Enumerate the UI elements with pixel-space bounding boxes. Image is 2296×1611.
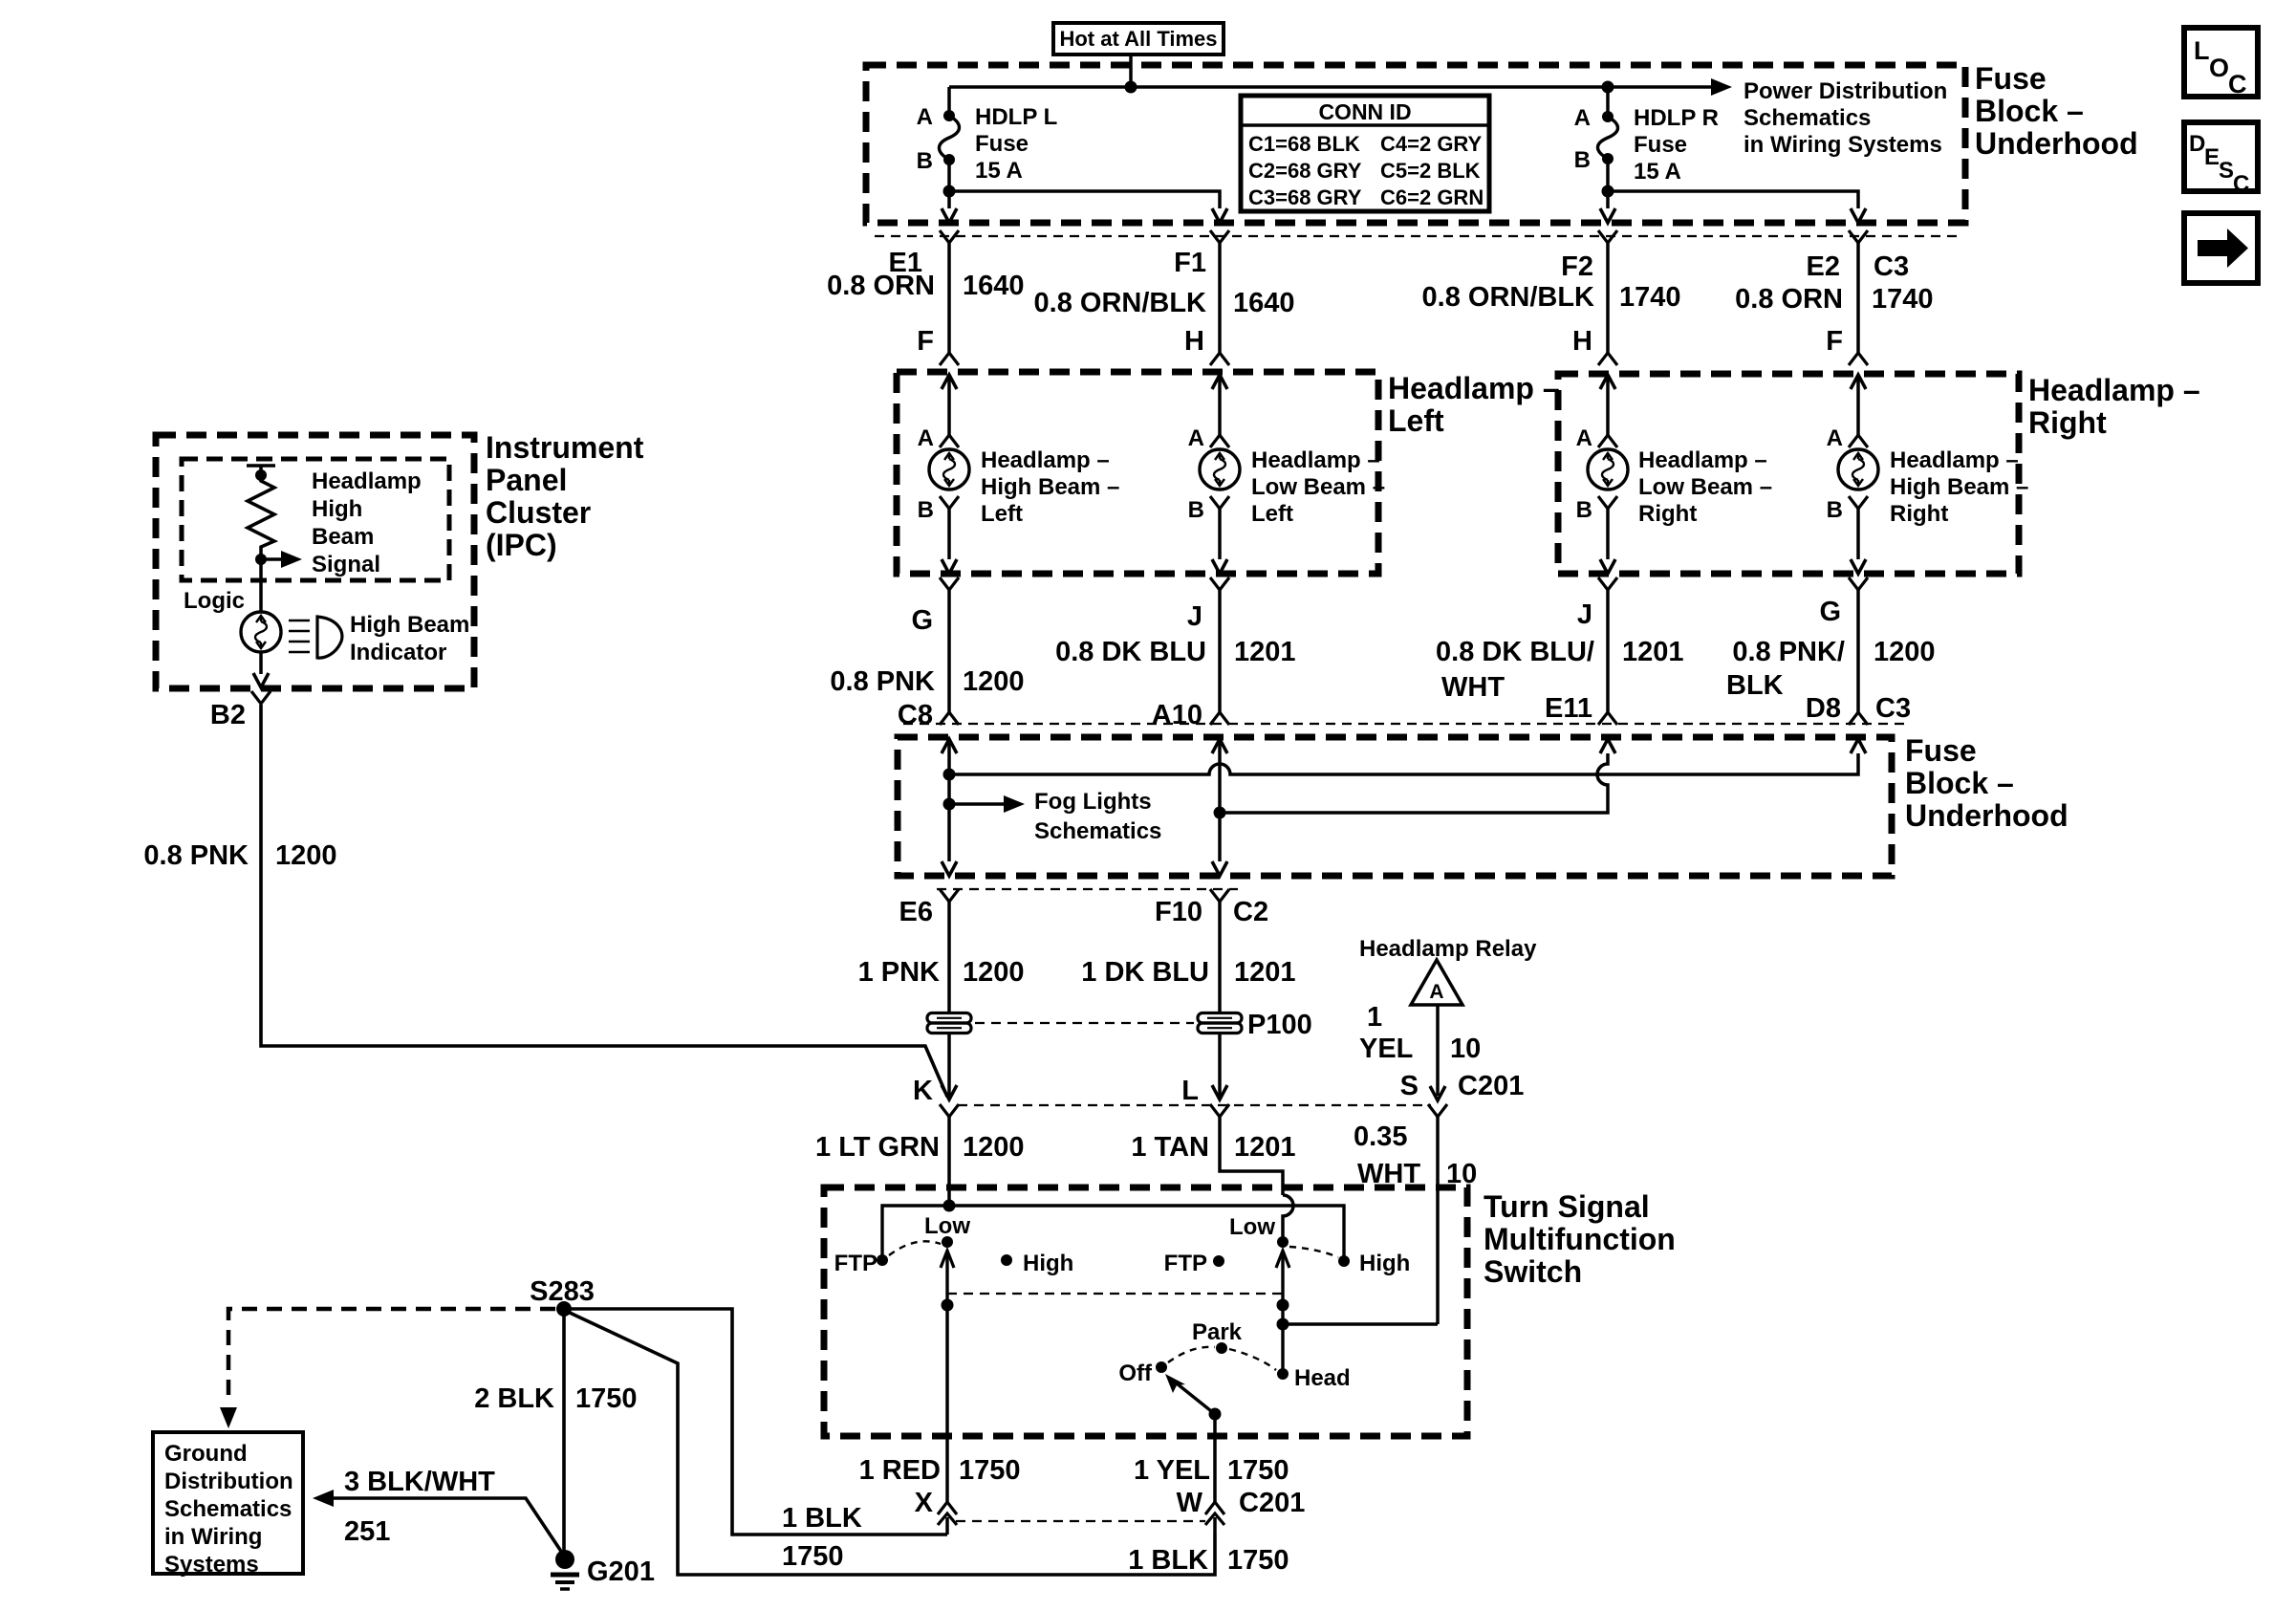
wire 1 BLK 1750 S283 to W xyxy=(570,1313,1215,1575)
svg-text:in Wiring Systems: in Wiring Systems xyxy=(1744,132,1942,158)
switch arm left (wiper to Low) xyxy=(941,1251,954,1304)
svg-text:0.8 PNK: 0.8 PNK xyxy=(830,666,935,697)
svg-text:FTP: FTP xyxy=(1164,1251,1207,1276)
contact Head xyxy=(1277,1368,1289,1380)
connector row C100 fine dashed line xyxy=(875,235,1960,237)
wire crossover link PNK to D8 with hop xyxy=(949,753,1858,774)
svg-text:1200: 1200 xyxy=(963,1132,1025,1163)
junction bus and LT GRN xyxy=(943,1200,956,1212)
svg-text:Ground: Ground xyxy=(164,1441,248,1467)
svg-text:X: X xyxy=(915,1488,934,1518)
connector row C201 bottom fine dashed line xyxy=(956,1520,1205,1522)
wire link DK BLU to E11 with hop xyxy=(1220,753,1608,813)
svg-text:HDLP R: HDLP R xyxy=(1634,105,1719,131)
connector half S xyxy=(1428,1104,1447,1117)
svg-text:D: D xyxy=(2189,131,2205,157)
arrowhead into headlamp high beam left xyxy=(942,375,957,389)
wire branch to E2 xyxy=(1608,191,1858,208)
svg-text:Off: Off xyxy=(1118,1361,1153,1386)
arrow to Fog Lights Schematics xyxy=(1004,795,1025,813)
wire to pin A of headlamp high beam left xyxy=(947,375,951,435)
svg-text:Headlamp –: Headlamp – xyxy=(981,447,1110,473)
wire 0.8 PNK 1200 from IPC B2 to K xyxy=(261,705,947,1097)
connector half L xyxy=(1210,1104,1229,1117)
svg-text:A: A xyxy=(917,104,933,130)
svg-text:C3: C3 xyxy=(1874,251,1909,282)
svg-text:Left: Left xyxy=(981,501,1023,527)
connector pin A headlamp low beam right xyxy=(1598,435,1617,447)
svg-text:0.8 ORN/BLK: 0.8 ORN/BLK xyxy=(1422,282,1595,313)
arrowhead into ground distribution box xyxy=(220,1407,237,1428)
wire 1 RED 1750 from arm to X xyxy=(945,1305,949,1502)
wire to pin A of headlamp low beam right xyxy=(1606,375,1610,435)
arrowhead at E1 exit xyxy=(942,208,957,223)
high beam indicator icon xyxy=(289,617,342,658)
wire 3 BLK/WHT 251 xyxy=(334,1498,562,1553)
wire 1 DK BLU 1201 segment xyxy=(1218,902,1222,1012)
wire stem below X xyxy=(945,1517,949,1535)
wire stub to fog lights note xyxy=(949,802,1004,806)
svg-text:1750: 1750 xyxy=(782,1541,844,1572)
svg-text:15 A: 15 A xyxy=(975,158,1023,184)
svg-text:1750: 1750 xyxy=(1227,1545,1289,1576)
power bus wire y91 xyxy=(949,85,1711,89)
wire PNK below P100 xyxy=(947,1034,951,1096)
wire from Hot at All Times to power bus xyxy=(1129,54,1133,87)
svg-text:F: F xyxy=(1826,326,1843,357)
connector pin A headlamp high beam right xyxy=(1849,435,1868,447)
svg-text:Right: Right xyxy=(1638,501,1697,527)
svg-text:1201: 1201 xyxy=(1234,1132,1296,1163)
svg-text:High: High xyxy=(312,496,362,522)
junction fuse block 2 c xyxy=(1214,807,1226,819)
arrowhead into headlamp low beam right xyxy=(1600,375,1615,389)
junction arm right a xyxy=(1277,1299,1289,1312)
ground G201 symbol xyxy=(551,1550,579,1589)
svg-text:High Beam –: High Beam – xyxy=(981,474,1119,500)
connector pin B headlamp high beam left xyxy=(940,496,959,509)
connector below box headlamp low beam right xyxy=(1598,577,1617,590)
svg-text:High Beam: High Beam xyxy=(350,612,469,638)
svg-text:Fog Lights: Fog Lights xyxy=(1034,789,1152,815)
wire WHT link to dimmer arm xyxy=(1283,1322,1438,1326)
svg-text:A: A xyxy=(1827,425,1843,451)
connector half pin H headlamp xyxy=(1210,353,1229,365)
svg-text:Logic: Logic xyxy=(184,588,245,614)
bulb headlamp low beam left xyxy=(1200,449,1240,490)
svg-text:Headlamp –: Headlamp – xyxy=(1890,447,2019,473)
svg-text:O: O xyxy=(2209,54,2229,82)
node top of high beam signal resistor xyxy=(255,469,267,481)
label HDLP L Fuse 15 A xyxy=(975,104,1057,184)
connector row fine dashed line E6/F10 xyxy=(937,888,1238,890)
inline connector at PNK wire xyxy=(927,1013,971,1034)
svg-text:Turn Signal: Turn Signal xyxy=(1484,1189,1650,1224)
svg-text:F: F xyxy=(917,326,934,357)
svg-text:B: B xyxy=(1827,497,1843,523)
CONN ID table xyxy=(1241,96,1489,211)
svg-text:1 TAN: 1 TAN xyxy=(1131,1132,1209,1163)
arrowhead exit headlamp low beam left xyxy=(1212,559,1227,574)
svg-text:1640: 1640 xyxy=(1233,288,1295,318)
svg-text:G: G xyxy=(1819,597,1841,627)
svg-text:C4=2 GRY: C4=2 GRY xyxy=(1380,132,1483,156)
junction fuse block 2 b xyxy=(943,798,956,811)
wire to E1 exit xyxy=(947,191,951,208)
title: Headlamp - Right xyxy=(2028,373,2200,440)
connector half pin F2 headlamp xyxy=(1849,353,1868,365)
svg-text:High: High xyxy=(1023,1251,1073,1276)
svg-text:1200: 1200 xyxy=(963,957,1025,988)
svg-text:H: H xyxy=(1572,326,1592,357)
svg-text:Indicator: Indicator xyxy=(350,640,446,665)
connector below box headlamp high beam right xyxy=(1849,577,1868,590)
wire indicator to B2 xyxy=(259,652,263,674)
connector row C201 fine dashed line xyxy=(958,1104,1431,1106)
svg-text:1200: 1200 xyxy=(963,666,1025,697)
dashed link between inline connectors xyxy=(975,1022,1194,1024)
title: Fuse Block - Underhood (lower) xyxy=(1905,733,2069,833)
wire headlamp return segment x=1276 xyxy=(1218,590,1222,712)
IPC inner dashed box xyxy=(182,459,449,580)
label headlamp high beam left text xyxy=(981,447,1119,527)
junction fuse block 2 a xyxy=(943,769,956,781)
svg-text:A: A xyxy=(1576,425,1592,451)
svg-text:C3=68 GRY: C3=68 GRY xyxy=(1248,185,1362,209)
svg-text:C201: C201 xyxy=(1239,1488,1305,1518)
arrow navigation box xyxy=(2184,213,2258,283)
arrowhead at F2 exit xyxy=(1600,208,1615,223)
connector pin A headlamp high beam left xyxy=(940,435,959,447)
svg-text:Beam: Beam xyxy=(312,524,374,550)
svg-text:G201: G201 xyxy=(587,1557,655,1587)
contact Off xyxy=(1156,1361,1167,1373)
connector below box headlamp high beam left xyxy=(940,577,959,590)
svg-text:1740: 1740 xyxy=(1872,284,1934,315)
title: Fuse Block - Underhood (top) xyxy=(1975,61,2138,161)
svg-text:E: E xyxy=(2204,144,2220,170)
svg-text:C6=2 GRN: C6=2 GRN xyxy=(1380,185,1484,209)
turn signal multifunction switch dashed box xyxy=(824,1187,1467,1436)
svg-text:B: B xyxy=(1576,497,1592,523)
headlamp left dashed box xyxy=(897,372,1378,574)
contact Park xyxy=(1216,1342,1227,1354)
wire stem below W xyxy=(1213,1517,1217,1535)
resistor high beam signal xyxy=(247,466,275,559)
arrowhead at B2 exit xyxy=(253,673,269,687)
arrowhead at E2 exit xyxy=(1851,208,1866,223)
connector half above fuse block x=1944 xyxy=(1849,712,1868,725)
wire 1 YEL 1750 from arm to W xyxy=(1213,1414,1217,1502)
arrowhead at K xyxy=(942,1085,957,1099)
connector half above fuse block x=1276 xyxy=(1210,712,1229,725)
svg-text:1201: 1201 xyxy=(1622,637,1684,667)
arrowhead into fuse block 2 x=1276 xyxy=(1212,739,1227,753)
arrow to ground distribution left xyxy=(313,1490,334,1507)
junction below resistor xyxy=(255,554,267,565)
arrowhead exit headlamp high beam right xyxy=(1851,559,1866,574)
svg-text:S: S xyxy=(1400,1071,1419,1101)
svg-text:A: A xyxy=(1188,425,1204,451)
contact High right xyxy=(1338,1255,1350,1267)
label headlamp low beam right text xyxy=(1638,447,1772,527)
wire to pin A of headlamp low beam left xyxy=(1218,375,1222,435)
wire power bus to HDLP L fuse terminal A xyxy=(947,87,951,116)
title: Turn Signal Multifunction Switch xyxy=(1484,1189,1676,1289)
svg-text:Panel: Panel xyxy=(486,463,567,497)
svg-text:Right: Right xyxy=(1890,501,1948,527)
svg-text:Headlamp –: Headlamp – xyxy=(1388,371,1560,405)
wire 1 LT GRN 1200 segment xyxy=(947,1117,951,1206)
svg-text:2 BLK: 2 BLK xyxy=(474,1383,554,1414)
svg-text:1 DK BLU: 1 DK BLU xyxy=(1081,957,1209,988)
bulb headlamp low beam right xyxy=(1588,449,1628,490)
fuse HDLP R 15A xyxy=(1598,111,1618,164)
power label box: Hot at All Times xyxy=(1053,23,1224,54)
wire inside fuse block 2 center xyxy=(1218,739,1222,861)
svg-text:1201: 1201 xyxy=(1234,637,1296,667)
connector pin A headlamp low beam left xyxy=(1210,435,1229,447)
svg-text:Block –: Block – xyxy=(1975,94,2084,128)
connector below box headlamp low beam left xyxy=(1210,577,1229,590)
svg-text:Schematics: Schematics xyxy=(1744,105,1871,131)
connector pin B headlamp low beam right xyxy=(1598,496,1617,509)
connector half F2 xyxy=(1598,230,1617,243)
contact High left xyxy=(1001,1254,1012,1266)
svg-text:1750: 1750 xyxy=(959,1455,1021,1486)
svg-text:Headlamp –: Headlamp – xyxy=(1251,447,1380,473)
svg-text:YEL: YEL xyxy=(1359,1034,1413,1064)
svg-text:C8: C8 xyxy=(898,700,933,730)
svg-text:E11: E11 xyxy=(1545,693,1592,724)
svg-text:B2: B2 xyxy=(210,700,246,730)
headlamp relay triangle symbol A xyxy=(1411,960,1462,1005)
junction arm left xyxy=(942,1299,954,1312)
svg-text:K: K xyxy=(913,1076,933,1106)
arrowhead fuse block 2 bottom center xyxy=(1212,861,1227,876)
svg-text:C: C xyxy=(2228,70,2247,98)
svg-text:1 YEL: 1 YEL xyxy=(1134,1455,1210,1486)
arrowhead into fuse block 2 x=993 xyxy=(942,739,957,753)
svg-text:0.8 DK BLU/: 0.8 DK BLU/ xyxy=(1436,637,1594,667)
wire from pin B of headlamp low beam right xyxy=(1606,509,1610,559)
dashed throw arc Low to High (right) xyxy=(1289,1247,1338,1257)
svg-text:0.35: 0.35 xyxy=(1354,1121,1407,1152)
svg-text:CONN ID: CONN ID xyxy=(1318,99,1411,124)
svg-text:B: B xyxy=(917,148,933,174)
DESC navigation box xyxy=(2184,122,2258,197)
svg-text:E6: E6 xyxy=(899,897,933,927)
svg-text:A: A xyxy=(918,425,934,451)
wire power bus to HDLP R fuse terminal A xyxy=(1606,87,1610,117)
svg-text:Distribution: Distribution xyxy=(164,1469,293,1494)
svg-text:Park: Park xyxy=(1192,1319,1243,1345)
svg-text:H: H xyxy=(1184,326,1204,357)
svg-text:1 RED: 1 RED xyxy=(859,1455,941,1486)
mechanical link dashed line between dimmer arms xyxy=(947,1293,1283,1295)
svg-text:1 LT GRN: 1 LT GRN xyxy=(815,1132,940,1163)
connector half E6 xyxy=(940,889,959,902)
connector half B2 xyxy=(251,691,271,704)
svg-text:0.8 ORN: 0.8 ORN xyxy=(827,271,935,301)
connector half X lower chevron xyxy=(938,1513,957,1525)
svg-text:J: J xyxy=(1187,601,1202,632)
svg-text:S: S xyxy=(2219,158,2234,184)
svg-text:F10: F10 xyxy=(1155,897,1202,927)
svg-text:Hot at All Times: Hot at All Times xyxy=(1059,27,1217,51)
svg-text:HDLP L: HDLP L xyxy=(975,104,1057,130)
svg-text:1 BLK: 1 BLK xyxy=(1128,1545,1208,1576)
arrowhead at S xyxy=(1430,1086,1445,1100)
svg-text:A10: A10 xyxy=(1152,700,1202,730)
label HDLP R Fuse 15 A xyxy=(1634,105,1719,185)
instrument panel cluster dashed box xyxy=(156,435,474,688)
wire 0.8 ORN/BLK 1640 segment xyxy=(1218,243,1222,353)
wire from pin B of headlamp high beam left xyxy=(947,509,951,559)
svg-text:J: J xyxy=(1577,599,1592,630)
svg-text:Systems: Systems xyxy=(164,1552,259,1578)
wire from pin B of headlamp low beam left xyxy=(1218,509,1222,559)
arrowhead into headlamp low beam left xyxy=(1212,375,1227,389)
junction below HDLP R fuse xyxy=(1602,185,1614,198)
arrowhead exit headlamp low beam right xyxy=(1600,559,1615,574)
dashed wire S283 to Ground Distribution xyxy=(228,1309,555,1404)
connector half X upper xyxy=(938,1502,957,1514)
svg-text:1201: 1201 xyxy=(1234,957,1296,988)
svg-text:Low: Low xyxy=(1229,1214,1275,1240)
svg-text:Headlamp –: Headlamp – xyxy=(2028,373,2200,407)
svg-text:0.8 DK BLU: 0.8 DK BLU xyxy=(1055,637,1206,667)
arrowhead into fuse block 2 x=1944 xyxy=(1851,739,1866,753)
svg-text:0.8 PNK/: 0.8 PNK/ xyxy=(1732,637,1845,667)
arrowhead at F1 exit xyxy=(1212,208,1227,223)
svg-text:Schematics: Schematics xyxy=(164,1496,292,1522)
svg-text:Power Distribution: Power Distribution xyxy=(1744,78,1947,104)
svg-text:Headlamp Relay: Headlamp Relay xyxy=(1359,936,1537,962)
connector pin B headlamp high beam right xyxy=(1849,496,1868,509)
dashed throw arc FTP to Low (left) xyxy=(889,1241,941,1255)
inline connector P100 xyxy=(1198,1013,1242,1034)
wire to pin A of headlamp high beam right xyxy=(1856,375,1860,435)
label High Beam Indicator xyxy=(350,612,469,665)
headlamp switch arm (points at Off) xyxy=(1165,1374,1215,1414)
svg-text:Left: Left xyxy=(1388,403,1444,438)
svg-text:0.8 ORN/BLK: 0.8 ORN/BLK xyxy=(1034,288,1207,318)
svg-text:D8: D8 xyxy=(1806,693,1841,724)
svg-text:0.8 ORN: 0.8 ORN xyxy=(1735,284,1843,315)
svg-text:A: A xyxy=(1429,981,1443,1003)
fuse HDLP L 15A xyxy=(940,110,960,165)
svg-text:Cluster: Cluster xyxy=(486,495,591,530)
wire 2 BLK 1750 S283 to G201 xyxy=(562,1309,566,1554)
svg-text:1750: 1750 xyxy=(1227,1455,1289,1486)
junction below HDLP L fuse xyxy=(943,185,956,198)
junction node at Hot feed xyxy=(1125,81,1137,94)
arrowhead into fuse block 2 x=1682 xyxy=(1600,739,1615,753)
splice S283 xyxy=(556,1301,572,1317)
svg-text:15 A: 15 A xyxy=(1634,159,1681,185)
title: Instrument Panel Cluster (IPC) xyxy=(486,430,644,562)
svg-text:Underhood: Underhood xyxy=(1975,126,2138,161)
svg-text:L: L xyxy=(2194,36,2210,65)
connector pin B headlamp low beam left xyxy=(1210,496,1229,509)
LOC navigation box xyxy=(2184,28,2258,98)
wire 1 BLK 1750 S283 to X xyxy=(564,1309,947,1535)
wire to F2 exit xyxy=(1606,191,1610,208)
svg-text:C5=2 BLK: C5=2 BLK xyxy=(1380,159,1481,183)
svg-text:High Beam –: High Beam – xyxy=(1890,474,2028,500)
connector half above fuse block x=993 xyxy=(940,712,959,725)
svg-text:Multifunction: Multifunction xyxy=(1484,1222,1676,1256)
svg-text:Schematics: Schematics xyxy=(1034,818,1161,844)
fuse block underhood (lower) dashed box xyxy=(898,737,1892,876)
ground distribution schematics box xyxy=(153,1432,303,1578)
note text: Power Distribution Schematics in Wiring Systems xyxy=(1744,78,1947,158)
wire low-beam bus inside switch with hop over TAN xyxy=(882,1206,1344,1260)
arrowhead exit headlamp high beam left xyxy=(942,559,957,574)
headlamp right dashed box xyxy=(1558,374,2019,574)
svg-text:Fuse: Fuse xyxy=(1975,61,2047,96)
svg-text:Signal: Signal xyxy=(312,552,380,577)
connector half above fuse block x=1682 xyxy=(1598,712,1617,725)
dashed throw arc Off-Park-Head xyxy=(1168,1347,1276,1370)
bulb headlamp high beam right xyxy=(1838,449,1878,490)
title: Headlamp - Left xyxy=(1388,371,1560,438)
svg-text:C2: C2 xyxy=(1233,897,1268,927)
svg-text:C: C xyxy=(2233,171,2249,197)
connector half W upper xyxy=(1205,1502,1224,1514)
connector half pin F headlamp xyxy=(940,353,959,365)
svg-text:Block –: Block – xyxy=(1905,766,2014,800)
svg-text:B: B xyxy=(1188,497,1204,523)
svg-text:W: W xyxy=(1177,1488,1203,1518)
wire 1 PNK 1200 segment xyxy=(947,902,951,1012)
note text: Fog Lights Schematics xyxy=(1034,789,1161,844)
wire HDLP L fuse B down xyxy=(947,160,951,191)
wire inside fuse block 2 left xyxy=(947,739,951,861)
svg-text:FTP: FTP xyxy=(834,1251,877,1276)
junction headlamp switch arm pivot xyxy=(1209,1408,1222,1421)
svg-text:10: 10 xyxy=(1450,1034,1481,1064)
svg-text:in Wiring: in Wiring xyxy=(164,1524,262,1550)
connector half F1 xyxy=(1210,230,1229,243)
svg-text:(IPC): (IPC) xyxy=(486,528,557,562)
svg-text:1740: 1740 xyxy=(1619,282,1681,313)
svg-text:C3: C3 xyxy=(1875,693,1911,724)
wire TAN continues through hop to Low contact xyxy=(1283,1195,1293,1242)
svg-text:G: G xyxy=(911,605,933,636)
svg-text:F2: F2 xyxy=(1561,251,1593,282)
label headlamp high beam right text xyxy=(1890,447,2028,527)
svg-text:F1: F1 xyxy=(1174,248,1206,278)
svg-text:Low Beam –: Low Beam – xyxy=(1251,474,1385,500)
contact Low left xyxy=(942,1236,953,1248)
contact FTP right xyxy=(1213,1255,1224,1267)
svg-text:1200: 1200 xyxy=(1874,637,1936,667)
wire 0.8 ORN 1640 segment xyxy=(947,243,951,353)
svg-text:Fuse: Fuse xyxy=(975,131,1029,157)
svg-text:BLK: BLK xyxy=(1726,670,1784,701)
svg-text:Fuse: Fuse xyxy=(1905,733,1977,768)
arrow headlamp high beam signal xyxy=(281,551,302,568)
svg-text:3 BLK/WHT: 3 BLK/WHT xyxy=(344,1467,495,1497)
wire from pin B of headlamp high beam right xyxy=(1856,509,1860,559)
svg-text:1640: 1640 xyxy=(963,271,1025,301)
svg-text:Right: Right xyxy=(2028,405,2107,440)
svg-text:WHT: WHT xyxy=(1441,672,1505,703)
wire DK BLU below P100 xyxy=(1218,1034,1222,1096)
svg-text:P100: P100 xyxy=(1247,1010,1312,1040)
